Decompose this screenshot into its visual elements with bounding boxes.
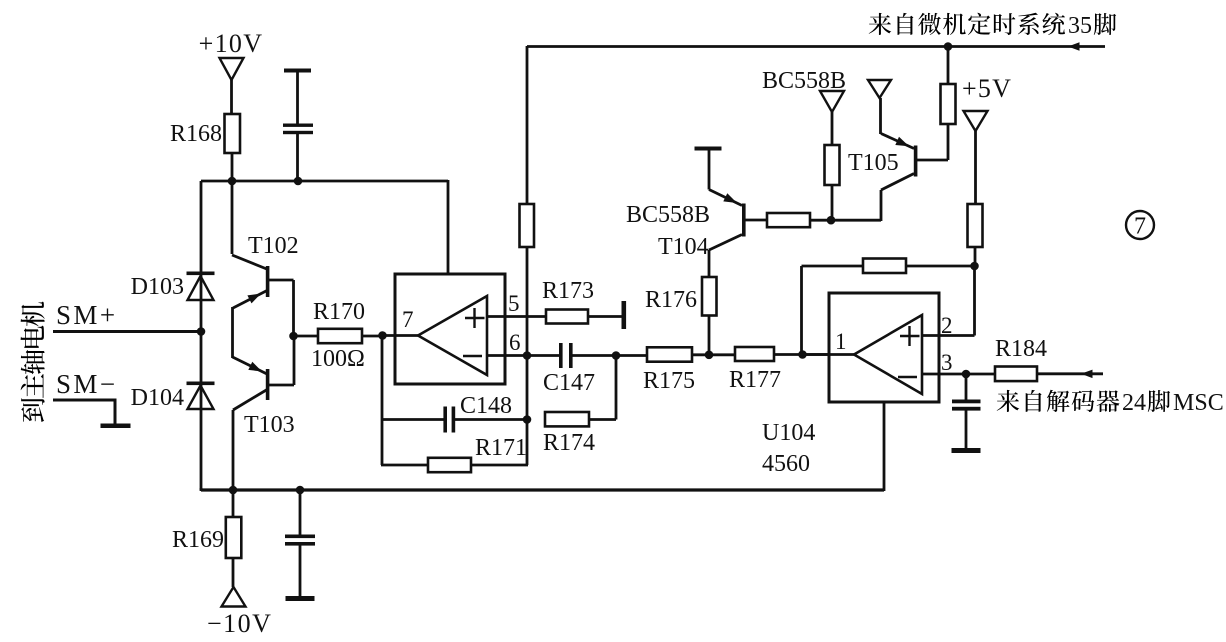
svg-text:R173: R173: [542, 278, 594, 304]
wire T105 base vertical: [947, 124, 950, 160]
power +10V symbol: [220, 58, 244, 115]
junction dot feedback/+5V node: [970, 262, 979, 271]
svg-text:D104: D104: [131, 385, 184, 411]
label pin 5: [508, 291, 520, 316]
svg-text:+10V: +10V: [199, 29, 264, 58]
diode D104: [187, 382, 215, 410]
wire T102 collector feed: [231, 181, 234, 254]
junction dot R169/rail: [229, 486, 238, 495]
svg-text:T102: T102: [248, 233, 299, 259]
svg-text:R169: R169: [172, 527, 224, 553]
transistor T104: [709, 190, 767, 251]
wire pin6 line: [487, 354, 562, 357]
resistor R171: [381, 458, 528, 472]
svg-text:7: 7: [1134, 214, 1146, 240]
wire top rail: [527, 45, 1105, 48]
resistor R173: [546, 310, 588, 324]
wire pin2 stub: [922, 334, 939, 337]
svg-text:35: 35: [1068, 13, 1092, 39]
wire pin5 line: [487, 315, 623, 318]
svg-text:5: 5: [508, 291, 520, 316]
resistor R177: [735, 347, 829, 361]
label R176: [645, 287, 697, 313]
svg-text:3: 3: [941, 350, 953, 375]
power flag +5V: [964, 111, 988, 204]
resistor R184: [966, 367, 1103, 382]
svg-text:T105: T105: [848, 150, 899, 176]
transistor T103: [233, 336, 295, 410]
label pin 3: [941, 350, 953, 375]
svg-text:2: 2: [941, 313, 953, 338]
op-amp U104a triangle: [418, 296, 487, 375]
wire SM- stub: [53, 400, 115, 425]
svg-text:T103: T103: [244, 412, 295, 438]
wire opamp2 output: [802, 353, 854, 356]
label SM-: [56, 369, 117, 399]
wire rail to opamp1 top: [447, 180, 450, 275]
wire U104 ground pin: [883, 402, 886, 491]
terminal pin3 cap ground bar: [952, 448, 981, 453]
resistor x832 (unlabeled): [825, 145, 840, 218]
label +5V: [962, 74, 1012, 103]
label 来自微机定时系统35脚: [869, 13, 1116, 39]
resistor T104 base (unlabeled): [767, 213, 881, 227]
capacitor C147: [559, 343, 616, 368]
svg-text:C147: C147: [543, 370, 595, 396]
label pin 6: [509, 330, 521, 355]
wire pin3 line: [922, 373, 966, 376]
label R175: [643, 368, 695, 394]
wire tall vertical x527: [526, 46, 529, 465]
capacitor at pin3: [952, 374, 981, 449]
label R168: [170, 121, 222, 147]
label R184: [995, 336, 1047, 362]
op-amp U104b triangle: [854, 315, 922, 394]
junction dot R175/R176 node: [705, 351, 714, 360]
power flag above R (BC558B): [820, 91, 844, 146]
arrow on top rail: [1068, 42, 1080, 51]
label BC558B (upper): [762, 68, 846, 94]
power flag T105 emitter: [868, 80, 891, 98]
resistor R174: [545, 356, 616, 427]
junction dot pin3 node: [962, 370, 971, 379]
junction dot cap/rail bottom: [296, 486, 305, 495]
wire T104 emitter up: [708, 150, 711, 190]
junction dot SM+ node: [197, 327, 206, 336]
op-amp U104b plus input mark: [900, 326, 920, 346]
terminal bottom cap end bar: [286, 596, 315, 601]
svg-text:R175: R175: [643, 368, 695, 394]
op-amp U104a minus input mark: [463, 355, 482, 357]
resistor R176: [702, 250, 717, 355]
junction dot opamp1 output node: [378, 331, 387, 340]
resistor R168: [225, 114, 241, 182]
label D104: [131, 385, 184, 411]
power +10V label: [199, 29, 264, 58]
wire bottom rail: [201, 488, 884, 491]
wire opamp1 output: [382, 334, 418, 337]
resistor x948 (unlabeled): [941, 47, 956, 124]
svg-text:R184: R184: [995, 336, 1047, 362]
junction dot opamp2 input node: [798, 350, 807, 359]
svg-text:1: 1: [835, 329, 847, 354]
svg-text:T104: T104: [658, 234, 709, 260]
junction dot x527/C148-R174: [523, 415, 532, 424]
node rail-left top: [201, 180, 448, 183]
label T104: [658, 234, 709, 260]
capacitor top (bar terminal): [284, 69, 311, 125]
capacitor C148: [382, 407, 527, 433]
label U104: [762, 420, 815, 446]
label 到主轴电机 (vertical): [21, 302, 45, 422]
capacitor top plates: [283, 124, 313, 182]
terminal pin5 end bar: [622, 301, 627, 329]
label C148: [460, 393, 512, 419]
terminal SM- end bar: [101, 424, 131, 429]
junction dot top rail: [944, 42, 953, 51]
label R171: [475, 435, 527, 461]
label SM+: [56, 300, 117, 330]
wire opamp2 feedback left vertical: [800, 266, 803, 355]
resistor x974 (unlabeled): [968, 204, 983, 266]
svg-text:100Ω: 100Ω: [311, 346, 365, 372]
transistor T105: [881, 134, 948, 222]
svg-text:R176: R176: [645, 287, 697, 313]
resistor R175: [616, 347, 735, 361]
junction dot R168/rail: [228, 177, 237, 186]
label T105: [848, 150, 899, 176]
arrow on MSC line: [1081, 370, 1093, 379]
svg-text:24: 24: [1122, 390, 1146, 416]
junction dot R170 left node: [289, 332, 298, 341]
op-amp U104b box: [829, 293, 939, 402]
terminal T104 emitter bar: [695, 147, 722, 151]
wire pin2 vertical: [939, 266, 975, 336]
capacitor bottom plates: [285, 490, 315, 597]
svg-text:−10V: −10V: [207, 609, 272, 638]
wire left vertical: [200, 181, 203, 491]
resistor on x527 (unlabeled): [520, 204, 535, 247]
label 4560: [762, 451, 810, 477]
label D103: [131, 274, 184, 300]
op-amp U104b minus input mark: [898, 376, 917, 378]
svg-text:R168: R168: [170, 121, 222, 147]
wire T105 emitter up: [879, 98, 882, 134]
svg-text:R174: R174: [543, 430, 595, 456]
wire T103 collector down: [232, 410, 235, 491]
label 来自解码器24脚MSC: [997, 390, 1224, 416]
junction dot cap/rail: [294, 177, 303, 186]
svg-text:R177: R177: [729, 367, 781, 393]
node S1 base/emitter segment: [231, 307, 234, 358]
resistor R169: [226, 490, 242, 587]
label pin 7: [402, 307, 414, 332]
svg-text:R170: R170: [313, 299, 365, 325]
resistor R170: [293, 329, 383, 343]
svg-text:R171: R171: [475, 435, 527, 461]
junction dot T104 base node: [827, 216, 836, 225]
label R173: [542, 278, 594, 304]
svg-text:6: 6: [509, 330, 521, 355]
label 100ohm: [311, 346, 365, 372]
wire bottom-left corner: [200, 488, 203, 490]
svg-text:SM−: SM−: [56, 369, 117, 399]
svg-text:4560: 4560: [762, 451, 810, 477]
op-amp U104a box: [395, 274, 505, 384]
label T102: [248, 233, 299, 259]
label R174: [543, 430, 595, 456]
power -10V symbol: [222, 587, 246, 607]
svg-text:C148: C148: [460, 393, 512, 419]
label BC558B (T104): [626, 202, 710, 228]
label pin 2: [941, 313, 953, 338]
label R169: [172, 527, 224, 553]
wire SM+ input: [53, 330, 201, 333]
label T103: [244, 412, 295, 438]
svg-text:SM+: SM+: [56, 300, 117, 330]
label C147: [543, 370, 595, 396]
label R170: [313, 299, 365, 325]
label -10V: [207, 609, 272, 638]
svg-text:BC558B: BC558B: [626, 202, 710, 228]
wire output feedback vertical: [381, 336, 384, 466]
junction dot C147/R175 node: [612, 351, 621, 360]
op-amp U104a plus input mark: [465, 308, 485, 328]
svg-text:U104: U104: [762, 420, 815, 446]
svg-text:MSC: MSC: [1173, 390, 1224, 416]
resistor opamp2 feedback (unlabeled): [802, 259, 976, 274]
svg-text:7: 7: [402, 307, 414, 332]
label pin 1: [835, 329, 847, 354]
diode D103: [187, 272, 215, 301]
label R177: [729, 367, 781, 393]
label circled 7: [1126, 211, 1154, 240]
svg-text:+5V: +5V: [962, 74, 1012, 103]
junction dot x527/pin6: [523, 351, 532, 360]
transistor T102: [232, 255, 294, 336]
svg-text:D103: D103: [131, 274, 184, 300]
